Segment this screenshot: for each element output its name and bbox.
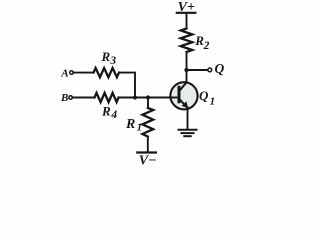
ground <box>179 130 197 136</box>
svg-text:1: 1 <box>210 96 216 108</box>
wire R3 to corner down to B line <box>119 73 135 98</box>
svg-text:R: R <box>125 117 135 132</box>
wire A to R3 <box>73 72 93 74</box>
svg-text:B: B <box>60 92 68 104</box>
node Q junction <box>184 68 188 72</box>
node junction R1 branch <box>146 95 150 99</box>
svg-text:2: 2 <box>203 40 210 52</box>
wire R4 to transistor base <box>119 97 171 99</box>
svg-text:V−: V− <box>139 154 157 169</box>
node B input terminal <box>60 92 72 104</box>
svg-text:Q: Q <box>215 61 225 76</box>
V- terminal <box>137 153 156 169</box>
transistor Q1 <box>170 82 216 109</box>
wire R1 to V- <box>147 137 149 152</box>
svg-text:Q: Q <box>199 88 209 103</box>
V+ terminal <box>177 0 196 15</box>
svg-text:R: R <box>101 103 111 118</box>
wire emitter to ground <box>187 108 189 129</box>
svg-text:4: 4 <box>110 109 117 121</box>
resistor R4 <box>95 93 119 121</box>
svg-text:A: A <box>60 67 68 79</box>
svg-text:3: 3 <box>109 55 116 67</box>
wire V+ to R2 <box>186 14 188 29</box>
resistor R1 <box>125 108 153 137</box>
wire B to R4 <box>72 97 94 99</box>
node junction R3 branch <box>133 95 137 99</box>
resistor R2 <box>181 29 210 53</box>
resistor R3 <box>94 49 120 77</box>
wire junction to R1 <box>147 98 149 109</box>
svg-text:R: R <box>101 49 111 64</box>
node A input terminal <box>60 67 73 79</box>
wire to Q terminal <box>187 69 208 71</box>
svg-text:1: 1 <box>137 122 143 134</box>
svg-text:V+: V+ <box>178 0 195 15</box>
wire R2 to collector <box>186 52 188 82</box>
node Q output terminal <box>208 61 225 76</box>
